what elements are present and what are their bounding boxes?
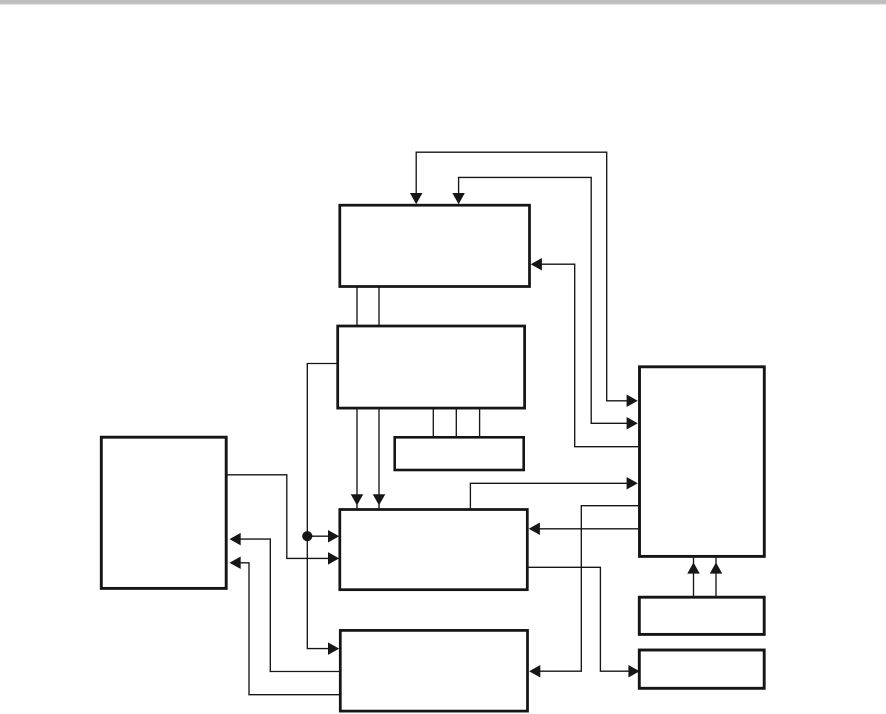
block B2 (below B1) bbox=[338, 326, 525, 408]
wire W6c B2 bottom to B3 top bbox=[479, 409, 481, 438]
block BB (right small lower) bbox=[639, 650, 764, 688]
block B4 (middle center) bbox=[340, 510, 528, 590]
wire W1 outer top loop (into B1 top and into RB left) bbox=[410, 152, 638, 407]
wire W14 B4 right down to BB left (arrow into BB) bbox=[527, 567, 640, 677]
wire W3 from RB left to B1 right (arrow into B1) bbox=[531, 258, 639, 447]
wire W6a B2 bottom to B3 top bbox=[432, 409, 434, 438]
block B1 (top center) bbox=[340, 205, 530, 286]
top gray bar bbox=[0, 0, 886, 6]
wire W5b B2 bottom to B4 top (arrow) bbox=[373, 409, 386, 510]
wire W6b B2 bottom to B3 top bbox=[455, 409, 457, 438]
wire W15a BA top to RB bottom (arrow up) bbox=[687, 557, 700, 598]
wire W10 B5 left up to LB right (arrow into LB) bbox=[230, 557, 340, 695]
block BA (right small upper) bbox=[639, 597, 764, 634]
wire W4b B1 bottom to B2 top bbox=[378, 288, 380, 326]
wire W11 B4 top to RB left (arrow) bbox=[470, 477, 637, 509]
wire W15b BA top to RB bottom (arrow up) bbox=[710, 557, 723, 598]
junction dot on W7 bbox=[302, 531, 312, 541]
wire W8 LB right to B4 left (arrow) bbox=[227, 475, 340, 565]
block B3 (small, below B2) bbox=[395, 437, 524, 470]
block B5 (bottom center) bbox=[340, 630, 527, 711]
block LB (left) bbox=[101, 437, 226, 588]
wire W5a B2 bottom to B4 top (arrow) bbox=[351, 409, 364, 510]
wire W12 RB left down to B5 right (arrow into B5) bbox=[529, 506, 638, 678]
wire W4a B1 bottom to B2 top bbox=[356, 288, 358, 326]
wire W2 inner top loop (into B1 top and into RB left) bbox=[452, 177, 637, 429]
wire W9 B5 left up to LB right (arrow into LB) bbox=[230, 533, 340, 672]
wire W7a branch from dot to B4 left (arrow) bbox=[307, 530, 339, 543]
wire W7 B2 left down to B5 left (arrow) bbox=[307, 364, 339, 655]
wire W13 RB left to B4 right (arrow into B4) bbox=[529, 523, 639, 536]
block RB (right tall) bbox=[640, 367, 765, 557]
